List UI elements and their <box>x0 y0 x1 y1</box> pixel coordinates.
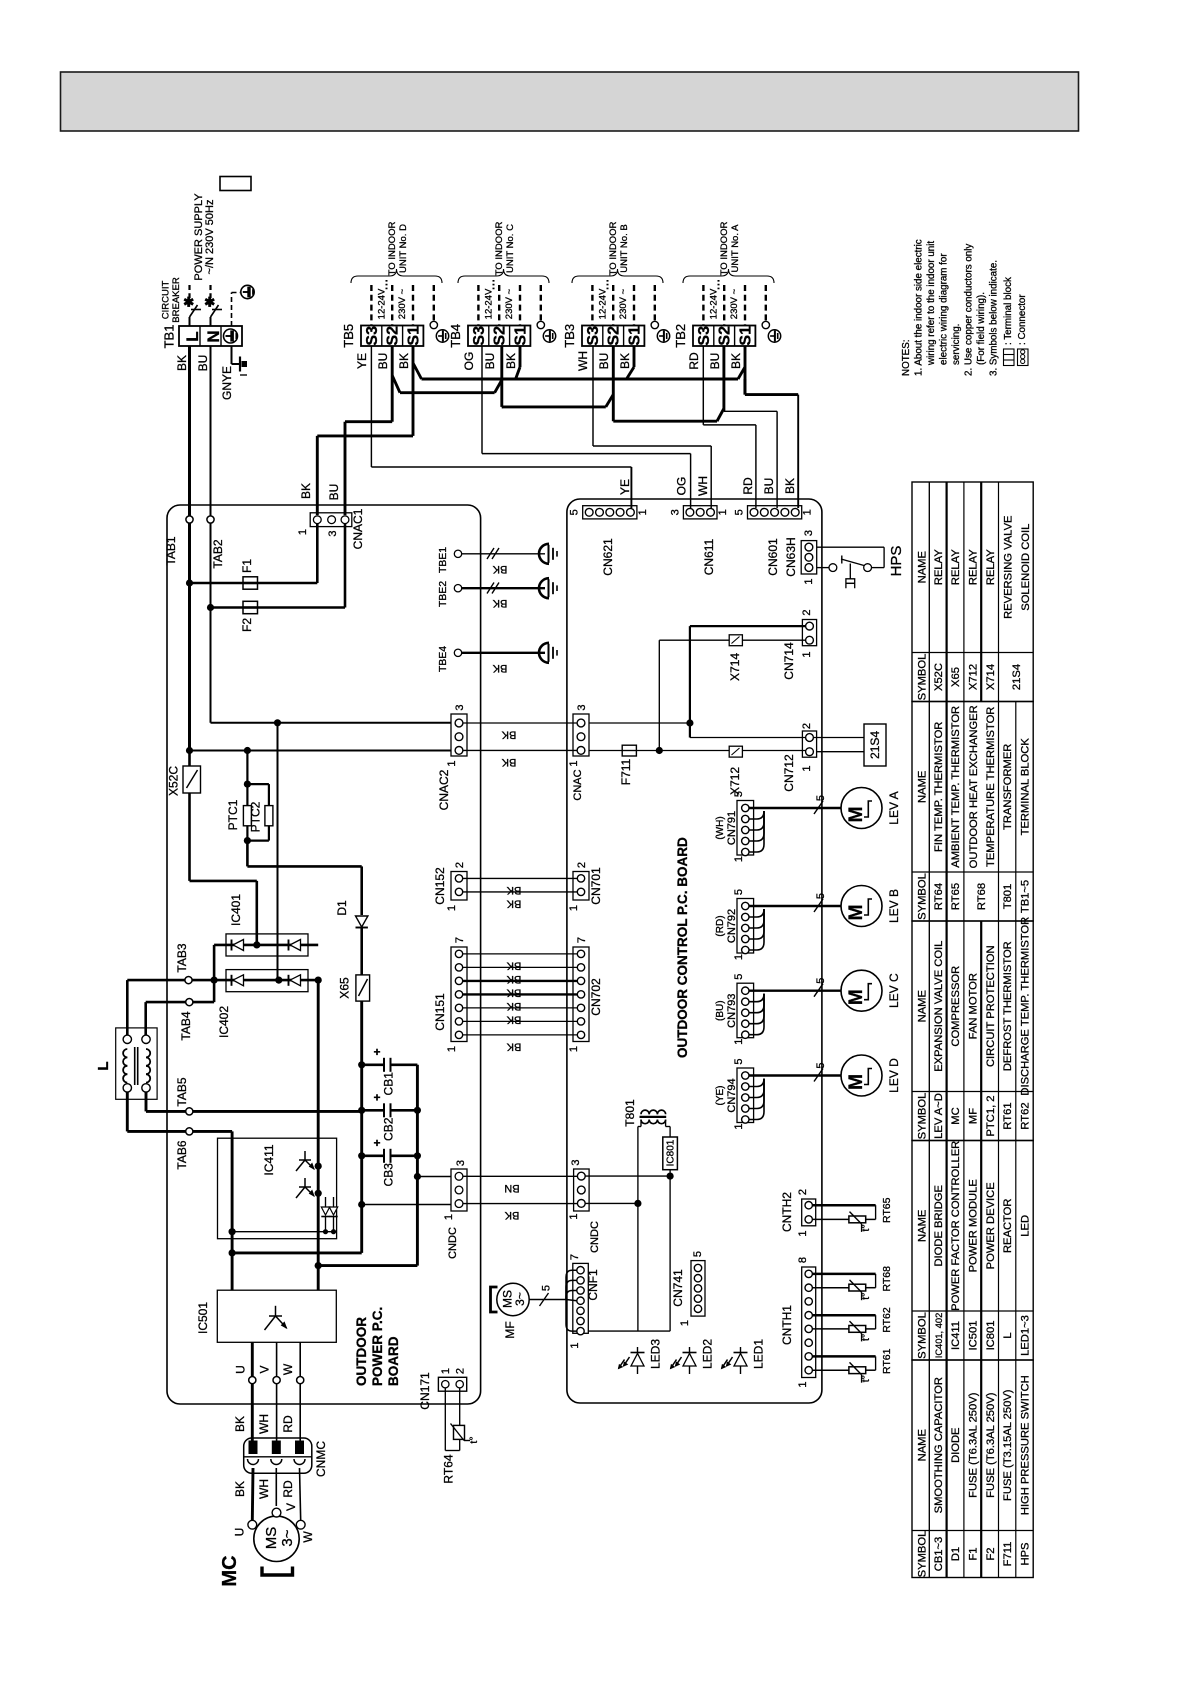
svg-text:W: W <box>281 1363 295 1375</box>
diode bridge IC402 <box>226 970 308 992</box>
TB5 field wiring dashed <box>370 285 372 326</box>
wire X65 to CB bank <box>360 1001 363 1253</box>
svg-text:5: 5 <box>734 509 746 515</box>
svg-text:230V ~: 230V ~ <box>397 288 408 319</box>
transformer T801 <box>641 1110 649 1114</box>
motor LEV A <box>841 788 882 829</box>
svg-text:CB1~3: CB1~3 <box>933 1537 945 1572</box>
fan motor MF <box>497 1283 529 1315</box>
svg-text:M: M <box>846 1074 867 1090</box>
svg-text:REVERSING VALVE: REVERSING VALVE <box>1003 515 1015 618</box>
wires CNAC2 to CNAC <box>463 722 577 724</box>
IC411 transistor upper <box>304 1151 306 1160</box>
svg-text:LEV B: LEV B <box>887 889 901 923</box>
svg-text:SOLENOID COIL: SOLENOID COIL <box>1020 524 1032 611</box>
connector CN794 <box>737 1068 754 1123</box>
svg-text:OG: OG <box>675 477 689 496</box>
board tab TBE2 with ground <box>454 585 461 592</box>
wire F2 to CNAC1 pin3 <box>344 524 347 608</box>
bottom rail link <box>232 1251 362 1254</box>
IC402 wire row <box>170 979 318 982</box>
TB5 S2 drop wire <box>391 346 394 422</box>
svg-text:BK: BK <box>783 478 797 494</box>
svg-text:electric wiring diagram for: electric wiring diagram for <box>939 253 950 365</box>
svg-text:(YE): (YE) <box>715 1086 726 1106</box>
svg-text:S2: S2 <box>492 326 509 346</box>
svg-text:BK: BK <box>233 1481 247 1497</box>
svg-text:SYMBOL: SYMBOL <box>917 1093 929 1140</box>
table block y 1360 <box>912 1360 1033 1578</box>
svg-text:BK: BK <box>492 662 507 674</box>
board tab TAB3 <box>185 977 192 984</box>
svg-text:t°: t° <box>860 1375 872 1382</box>
wire N to CNAC2 pin3 <box>211 722 452 724</box>
svg-text:1: 1 <box>803 578 815 584</box>
svg-text:X52C: X52C <box>933 663 945 691</box>
svg-text:MF: MF <box>503 1321 517 1338</box>
fuse F711 <box>622 745 636 756</box>
LED1 <box>740 1347 742 1374</box>
svg-text:2: 2 <box>576 862 588 868</box>
svg-text:: Terminal block: : Terminal block <box>1003 277 1014 345</box>
svg-text:RT68: RT68 <box>881 1266 893 1292</box>
TB3 earth screw <box>657 330 669 342</box>
svg-text:TB1: TB1 <box>162 325 177 349</box>
TB4 S2 wires <box>500 346 503 407</box>
TB3 S1 wires <box>633 346 636 367</box>
svg-text:+: + <box>373 1136 380 1150</box>
power device IC801 <box>663 1137 678 1170</box>
svg-text:~/N 230V 50Hz: ~/N 230V 50Hz <box>204 200 216 275</box>
svg-text:IC801: IC801 <box>985 1321 997 1351</box>
motor LEV B <box>841 886 882 927</box>
svg-text:N: N <box>204 330 223 342</box>
CN792 slash 5 <box>814 899 823 912</box>
MC bracket <box>262 1567 293 1576</box>
svg-text:F711: F711 <box>1002 1542 1014 1567</box>
table block y 921 <box>912 921 1033 1141</box>
svg-text:1: 1 <box>446 760 458 766</box>
svg-text:RELAY: RELAY <box>933 549 945 585</box>
wire GNYE to chassis ground <box>231 346 233 364</box>
TB5 S1 drop wire <box>412 346 415 436</box>
svg-text:3~: 3~ <box>513 1292 527 1306</box>
svg-text:MC: MC <box>219 1555 241 1586</box>
board tab TAB4 <box>186 999 193 1006</box>
svg-text:1: 1 <box>733 1123 745 1129</box>
svg-text:TAB6: TAB6 <box>175 1140 189 1169</box>
svg-text:CN714: CN714 <box>782 642 796 680</box>
svg-text:CN63H: CN63H <box>784 537 798 576</box>
svg-text:BU: BU <box>376 353 390 370</box>
TB2 S1 wires <box>744 346 747 395</box>
wire TAB6 to IC501 <box>193 1130 232 1133</box>
TB3 earth stub circle <box>651 321 658 328</box>
wire X52C to bridge <box>188 793 191 881</box>
svg-text:12-24V: 12-24V <box>376 288 387 319</box>
diode D1 <box>356 916 368 927</box>
svg-text:CNF1: CNF1 <box>586 1269 600 1301</box>
wire CNF1 pin1 <box>584 1330 588 1332</box>
svg-text:OUTDOOR HEAT EXCHANGER: OUTDOOR HEAT EXCHANGER <box>968 705 980 868</box>
svg-text:230V ~: 230V ~ <box>504 288 515 319</box>
connector CN741 <box>691 1261 705 1317</box>
svg-text:1: 1 <box>802 509 814 515</box>
terminal block TB3 <box>582 326 644 347</box>
svg-text:IC401, 402: IC401, 402 <box>934 1313 944 1359</box>
wire TAB4 to bridge row <box>193 1001 214 1004</box>
connector CNAC2 <box>451 714 467 756</box>
TB4 brace <box>458 269 549 283</box>
svg-text:BK: BK <box>397 353 411 369</box>
svg-text:CN791: CN791 <box>726 811 738 845</box>
svg-text:TO INDOOR: TO INDOOR <box>494 222 505 276</box>
TB2 earth screw <box>768 330 780 342</box>
terminal block TB1 <box>179 326 242 346</box>
svg-text:1: 1 <box>733 856 745 862</box>
svg-text:2: 2 <box>801 723 813 729</box>
PTC output wire <box>246 841 249 867</box>
svg-text:(WH): (WH) <box>715 816 726 839</box>
svg-text:SYMBOL: SYMBOL <box>917 873 929 920</box>
svg-text:1: 1 <box>568 905 580 911</box>
svg-text:PTC1, 2: PTC1, 2 <box>985 1095 997 1136</box>
svg-text:servicing.: servicing. <box>951 324 962 365</box>
svg-text:IC401: IC401 <box>229 894 243 926</box>
svg-text:RELAY: RELAY <box>968 549 980 585</box>
thermistor RT65 <box>812 1204 875 1207</box>
wire D1 to X65 <box>360 928 363 975</box>
svg-text:NAME: NAME <box>917 1429 929 1461</box>
svg-text:BK: BK <box>618 353 632 369</box>
terminal block TB5 <box>361 326 423 347</box>
svg-text:CN702: CN702 <box>589 978 603 1016</box>
connector CNF1 <box>573 1263 589 1333</box>
svg-text:CNAC2: CNAC2 <box>437 769 451 810</box>
svg-text:3: 3 <box>803 530 815 536</box>
svg-text:UNIT No. C: UNIT No. C <box>505 224 516 273</box>
left rail TAB3 to IC401 <box>213 945 216 980</box>
svg-text:SMOOTHING CAPACITOR: SMOOTHING CAPACITOR <box>933 1377 945 1513</box>
svg-text:POWER P.C.: POWER P.C. <box>370 1307 385 1386</box>
svg-text:TAB1: TAB1 <box>164 536 178 565</box>
svg-text:5: 5 <box>692 1251 704 1257</box>
TB4 S1 wires <box>519 346 522 367</box>
svg-text:WH: WH <box>257 1414 271 1434</box>
svg-text:BK: BK <box>506 1013 521 1025</box>
connector CNDC control side <box>574 1169 590 1211</box>
S3 wire YE to CN621 <box>370 346 372 467</box>
svg-text:7: 7 <box>576 937 588 943</box>
svg-text:1. About the indoor side elect: 1. About the indoor side electric <box>914 239 925 376</box>
table block y 702 <box>912 702 1033 922</box>
ground symbol TBE1 <box>539 544 549 564</box>
svg-text:RT62: RT62 <box>881 1307 893 1333</box>
CNAC1 feed BU <box>345 420 392 423</box>
svg-text:1: 1 <box>568 760 580 766</box>
IC501 outputs U V W <box>251 1342 254 1376</box>
TB4 earth stub circle <box>537 321 544 328</box>
svg-text:TAB4: TAB4 <box>179 1011 193 1040</box>
fuse F1 <box>190 582 318 585</box>
svg-text:7: 7 <box>454 937 466 943</box>
svg-text:S2: S2 <box>606 326 623 346</box>
svg-text:BK: BK <box>729 353 743 369</box>
svg-text:TB1~5: TB1~5 <box>1020 880 1032 913</box>
svg-text:5: 5 <box>815 1062 827 1068</box>
svg-text:BU: BU <box>762 478 776 495</box>
svg-text:TBE2: TBE2 <box>437 581 449 607</box>
ground symbol TBE4 <box>539 643 549 663</box>
svg-text:POWER MODULE: POWER MODULE <box>968 1179 980 1272</box>
svg-text:X714: X714 <box>985 664 997 690</box>
svg-text:CB2: CB2 <box>382 1117 396 1141</box>
svg-text:RT61: RT61 <box>1002 1102 1014 1129</box>
svg-text:X714: X714 <box>728 653 742 681</box>
TB2 earth stub circle <box>762 321 769 328</box>
legend box <box>220 177 251 191</box>
wires CN151 to CN702 <box>463 953 577 955</box>
svg-text:HIGH PRESSURE SWITCH: HIGH PRESSURE SWITCH <box>1020 1375 1032 1515</box>
svg-text:M: M <box>846 807 867 823</box>
note symbol connector <box>1018 349 1029 366</box>
TB2 S2 wires <box>722 346 725 411</box>
IC401 diode right <box>290 940 301 951</box>
S1 bus wire BK <box>422 378 739 381</box>
relay contact X65 <box>356 975 370 1001</box>
svg-text:BK: BK <box>506 884 521 896</box>
svg-text:CB1: CB1 <box>382 1072 396 1096</box>
svg-text:CN701: CN701 <box>589 867 603 905</box>
svg-text:S3: S3 <box>696 326 713 346</box>
CN794 wire bundle <box>749 1074 841 1076</box>
svg-text:YE: YE <box>618 479 632 495</box>
svg-text:TERMINAL BLOCK: TERMINAL BLOCK <box>1020 738 1032 836</box>
svg-text:1: 1 <box>637 509 649 515</box>
svg-text:21S4: 21S4 <box>868 731 882 759</box>
bridge rail through IC411 <box>317 980 320 1290</box>
RT64 thermistor <box>444 1388 446 1451</box>
svg-text:(BU): (BU) <box>715 1000 726 1021</box>
svg-text:RT61: RT61 <box>881 1348 893 1374</box>
svg-text:CN793: CN793 <box>726 994 738 1028</box>
svg-text:L: L <box>95 1061 112 1070</box>
svg-text:230V ~: 230V ~ <box>618 288 629 319</box>
svg-text:CIRCUIT PROTECTION: CIRCUIT PROTECTION <box>985 945 997 1067</box>
svg-text:BU: BU <box>196 355 210 372</box>
chassis ground symbol <box>239 357 241 372</box>
outdoor control board outline <box>567 499 822 1403</box>
svg-text:BK: BK <box>506 959 521 971</box>
svg-text:t°: t° <box>468 1436 480 1443</box>
thermistor RT68 <box>812 1273 875 1276</box>
svg-text:1: 1 <box>297 529 309 535</box>
junction to X714 <box>656 747 663 754</box>
svg-text:F1: F1 <box>240 559 254 573</box>
svg-text:EXPANSION VALVE COIL: EXPANSION VALVE COIL <box>933 941 945 1072</box>
connector CN702 <box>573 947 589 1042</box>
PTC1 PTC2 parallel branch <box>246 751 248 806</box>
svg-text:FUSE (T6.3AL 250V): FUSE (T6.3AL 250V) <box>968 1392 980 1498</box>
svg-text:21S4: 21S4 <box>1011 664 1023 690</box>
svg-text:X712: X712 <box>728 767 742 795</box>
svg-text:S3: S3 <box>585 326 602 346</box>
svg-text:RT64: RT64 <box>442 1454 456 1483</box>
connector CN791 <box>737 801 754 856</box>
TB5 earth stub circle <box>430 321 437 328</box>
thermistor RT61 <box>812 1355 875 1358</box>
svg-text:BK: BK <box>233 1416 247 1432</box>
svg-text:t°: t° <box>860 1334 872 1341</box>
svg-text:RD: RD <box>281 1480 295 1498</box>
svg-text:BK: BK <box>299 483 313 499</box>
ground symbol TBE2 <box>539 578 549 598</box>
connector CN621 <box>583 506 637 519</box>
svg-text:MF: MF <box>968 1108 980 1124</box>
connector CN63H <box>801 541 817 574</box>
svg-text:SYMBOL: SYMBOL <box>917 1531 929 1578</box>
junction X52C top <box>186 747 193 754</box>
power factor module IC411 <box>218 1138 337 1239</box>
svg-text:OUTDOOR CONTROL P.C. BOARD: OUTDOOR CONTROL P.C. BOARD <box>675 837 690 1058</box>
connector CNTH1 <box>802 1267 816 1378</box>
svg-text:LED3: LED3 <box>649 1339 663 1369</box>
LED3 <box>637 1347 639 1374</box>
svg-text:CN794: CN794 <box>726 1078 738 1112</box>
connector CN712 <box>802 731 816 757</box>
svg-text:BK: BK <box>506 898 521 910</box>
svg-text:TB4: TB4 <box>448 324 463 348</box>
svg-text:3: 3 <box>454 704 466 710</box>
wires CNDC to CNDC <box>463 1175 577 1177</box>
svg-text:SYMBOL: SYMBOL <box>917 1312 929 1359</box>
wire CN712 pin2 <box>690 737 806 739</box>
svg-text:CNDC: CNDC <box>589 1221 601 1253</box>
svg-text:TEMPERATURE THERMISTOR: TEMPERATURE THERMISTOR <box>985 707 997 867</box>
svg-text:NAME: NAME <box>917 771 929 803</box>
connector CN151 <box>451 947 467 1042</box>
HPS pressure element <box>849 564 851 579</box>
svg-text:TO INDOOR: TO INDOOR <box>608 222 619 276</box>
svg-text:3: 3 <box>455 1160 467 1166</box>
svg-text:S1: S1 <box>627 326 644 346</box>
connector CNAC control side <box>573 714 589 756</box>
svg-text:3: 3 <box>576 704 588 710</box>
svg-text:7: 7 <box>569 1254 581 1260</box>
board tab TBE4 with ground <box>454 649 461 656</box>
svg-text:3: 3 <box>327 530 339 536</box>
svg-text:LEV C: LEV C <box>887 973 901 1008</box>
svg-text:BK: BK <box>501 756 516 768</box>
svg-text:RD: RD <box>741 477 755 495</box>
wire TB1-N to TAB2 <box>210 346 212 516</box>
svg-text:OUTDOOR: OUTDOOR <box>354 1317 369 1386</box>
svg-text:M: M <box>846 905 867 921</box>
svg-text:1: 1 <box>440 1368 452 1374</box>
junction diode bridge mid-bottom branch <box>274 719 281 726</box>
terminal block TB2 <box>693 326 755 347</box>
svg-text:RELAY: RELAY <box>950 549 962 585</box>
svg-text:CN151: CN151 <box>433 993 447 1031</box>
svg-text:1: 1 <box>679 1320 691 1326</box>
svg-text:RT62: RT62 <box>1020 1102 1032 1129</box>
svg-text:CN712: CN712 <box>782 754 796 792</box>
svg-text:1: 1 <box>568 1046 580 1052</box>
svg-text:RELAY: RELAY <box>985 549 997 585</box>
earth screw symbol top <box>241 285 254 298</box>
svg-text:X65: X65 <box>950 667 962 687</box>
TB5 earth screw <box>436 330 448 342</box>
S2 bus wire BU <box>400 391 495 394</box>
connector CN701 <box>573 872 589 901</box>
svg-text:12-24V: 12-24V <box>483 288 494 319</box>
svg-text:1: 1 <box>568 1213 580 1219</box>
svg-text:BK: BK <box>492 563 507 575</box>
svg-text:RT64: RT64 <box>933 883 945 910</box>
wires CNMC to MC <box>251 1468 255 1521</box>
svg-text:LED1: LED1 <box>752 1339 766 1369</box>
svg-text:CNDC: CNDC <box>447 1227 459 1259</box>
svg-text:X52C: X52C <box>167 766 181 796</box>
svg-text:3. Symbols below indicate.: 3. Symbols below indicate. <box>989 260 1000 376</box>
svg-text:BREAKER: BREAKER <box>171 277 182 323</box>
svg-text:CN611: CN611 <box>702 538 716 575</box>
svg-text:3: 3 <box>669 509 681 515</box>
connector CN152 <box>451 872 467 901</box>
svg-text:LED: LED <box>1020 1215 1032 1237</box>
svg-text:t°: t° <box>860 1224 872 1231</box>
svg-text:F711: F711 <box>619 758 633 785</box>
svg-text:5: 5 <box>541 1285 553 1291</box>
svg-text:+: + <box>373 1045 380 1059</box>
svg-text:TO INDOOR: TO INDOOR <box>387 222 398 276</box>
svg-text:CIRCUIT: CIRCUIT <box>161 281 172 320</box>
connector CNMC <box>244 1438 312 1473</box>
TB2 brace <box>683 269 774 283</box>
svg-text:BK: BK <box>504 353 518 369</box>
svg-text:5: 5 <box>815 795 827 801</box>
T801 leads <box>640 1120 642 1127</box>
IC411 diodes <box>325 1197 327 1207</box>
motor LEV C <box>841 970 882 1011</box>
svg-text:D1: D1 <box>335 900 349 916</box>
junction PTC branch <box>244 747 251 754</box>
svg-text:MS: MS <box>263 1527 280 1550</box>
svg-text:t°: t° <box>860 1293 872 1300</box>
IC501 transistor symbol <box>275 1306 277 1316</box>
MF wire with slash 5 <box>529 1299 566 1301</box>
svg-text:1: 1 <box>446 1046 458 1052</box>
svg-text:UNIT No. A: UNIT No. A <box>730 224 741 273</box>
svg-text:CN621: CN621 <box>601 538 615 576</box>
wires CN152 to CN701 <box>463 877 577 879</box>
TBE2 wire slash marks <box>487 583 494 594</box>
CN792 wire bundle <box>749 905 841 907</box>
svg-text:12-24V: 12-24V <box>708 288 719 319</box>
svg-text:LED1~3: LED1~3 <box>1020 1315 1032 1356</box>
svg-text:IC411: IC411 <box>262 1144 276 1175</box>
svg-text:GNYE: GNYE <box>220 366 234 400</box>
inverter module IC501 <box>217 1290 336 1342</box>
CN793 slash 5 <box>814 984 823 997</box>
svg-text:BK: BK <box>501 729 516 741</box>
TB5 brace <box>351 269 442 283</box>
svg-text:BK: BK <box>492 597 507 609</box>
svg-text:2. Use copper conductors only: 2. Use copper conductors only <box>964 244 975 376</box>
svg-text:POWER DEVICE: POWER DEVICE <box>985 1182 997 1269</box>
svg-text:: Connector: : Connector <box>1017 294 1028 345</box>
PTC1 <box>243 806 251 826</box>
